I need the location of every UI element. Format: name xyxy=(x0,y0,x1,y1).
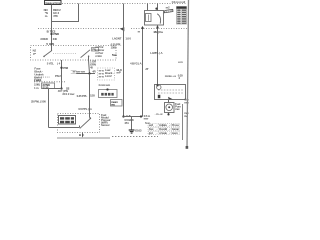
svg-text:Lint 2: Lint 2 xyxy=(105,74,112,78)
fuel text rows left of W1 xyxy=(98,68,115,80)
text right of bottom box xyxy=(101,113,111,127)
mini table top right xyxy=(177,7,187,25)
svg-text:Sensor: Sensor xyxy=(101,123,111,127)
arrow tag xyxy=(164,9,173,13)
svg-text:4 BYG | A: 4 BYG | A xyxy=(130,62,142,66)
svg-text:25 PNL | 500: 25 PNL | 500 xyxy=(31,100,46,104)
wire down at x48 xyxy=(48,89,50,128)
svg-text:mmw + a: mmw + a xyxy=(165,74,176,78)
svg-text:340: 340 xyxy=(53,37,58,41)
svg-text:LAGNT: LAGNT xyxy=(112,37,121,41)
wire down from box xyxy=(61,60,63,89)
svg-text:m2: m2 xyxy=(166,6,170,10)
svg-text:5 m: 5 m xyxy=(112,53,117,57)
switch arc xyxy=(157,14,160,24)
wire labels beside wire xyxy=(44,8,62,18)
grey band xyxy=(57,137,110,139)
svg-text:2C1 2 mw: 2C1 2 mw xyxy=(62,92,75,96)
main middle wire W1 xyxy=(123,4,125,117)
svg-text:LAPPL | A: LAPPL | A xyxy=(150,51,163,55)
dashed connector line right part xyxy=(131,28,187,30)
small label box xyxy=(42,83,55,89)
dashed bus top xyxy=(62,3,187,5)
fuel pump unit box xyxy=(155,85,186,100)
jog dot and horizontal xyxy=(60,87,62,89)
svg-text:451: 451 xyxy=(124,121,129,125)
motor xyxy=(165,103,175,113)
svg-text:mwn: mwn xyxy=(172,131,178,135)
svg-text:n Bm: n Bm xyxy=(95,54,102,58)
wire branch right and up to bus xyxy=(52,21,79,23)
svg-text:0.5 PPL | m: 0.5 PPL | m xyxy=(78,107,92,111)
underhood fuse block dashed box xyxy=(31,46,117,61)
bottom-left dashed component box xyxy=(58,114,100,133)
svg-text:(prt: (prt xyxy=(149,131,153,135)
fuse block label box xyxy=(45,1,62,5)
svg-text:m wm wm: m wm wm xyxy=(73,69,86,73)
page border right xyxy=(187,0,189,149)
small box right of switch2 xyxy=(92,48,99,52)
linkage dotted xyxy=(53,53,77,55)
exit wire + B C label xyxy=(82,133,84,138)
splice dot S110 xyxy=(50,33,52,35)
svg-text:PND: PND xyxy=(53,32,59,36)
svg-text:- m - w: - m - w xyxy=(155,112,164,116)
left text block: Fuse Block Underhood xyxy=(34,66,61,89)
svg-text:1 m: 1 m xyxy=(34,86,39,90)
dashed connector line left xyxy=(34,81,66,83)
svg-text:1S8: 1S8 xyxy=(90,93,95,97)
W1 junction xyxy=(122,115,124,117)
svg-text:AT: AT xyxy=(145,67,149,71)
splice bar xyxy=(76,73,95,75)
inner solid box xyxy=(59,116,76,125)
W2 wire from relay coil pin xyxy=(142,26,144,116)
svg-text:1589: 1589 xyxy=(111,45,117,49)
feed from bus xyxy=(157,4,159,11)
svg-text:m.: m. xyxy=(45,14,48,18)
connector arrow xyxy=(120,27,125,31)
short vertical line xyxy=(182,104,184,140)
text rows in dashed box right part xyxy=(95,45,104,58)
svg-text:4 mm wm: 4 mm wm xyxy=(98,83,110,87)
svg-text:4T8: 4T8 xyxy=(53,14,58,18)
svg-text:5 YEL: 5 YEL xyxy=(47,61,54,65)
svg-text:3 RED: 3 RED xyxy=(40,37,48,41)
svg-text:PN 2: PN 2 xyxy=(55,74,61,78)
wire from fuse block down xyxy=(51,5,53,48)
svg-text:S110: S110 xyxy=(42,85,48,89)
svg-text:ML | Ca: ML | Ca xyxy=(154,30,163,34)
splice dot xyxy=(60,67,62,69)
ground symbol xyxy=(129,129,135,131)
switch 1 xyxy=(51,47,53,51)
svg-text:Gaus a Cms: Gaus a Cms xyxy=(45,1,60,5)
text right of motor xyxy=(175,102,181,111)
svg-text:mP: mP xyxy=(117,71,121,75)
coil box xyxy=(146,14,152,22)
wire entering and switch xyxy=(49,127,80,129)
merge + ground xyxy=(124,116,143,118)
svg-text:P02: P02 xyxy=(63,66,68,70)
dashed line bottom right xyxy=(112,136,158,138)
wire from switch2 down xyxy=(89,60,90,74)
svg-text:1.0 0: 1.0 0 xyxy=(125,37,131,41)
svg-text:u m: u m xyxy=(178,60,183,64)
svg-text:2 C18: 2 C18 xyxy=(34,78,41,82)
switch 2 xyxy=(81,50,90,58)
svg-text:0.35 PPL: 0.35 PPL xyxy=(77,94,88,98)
svg-text:of axle: of axle xyxy=(159,131,167,135)
wire down to bottom box xyxy=(89,74,91,114)
svg-text:C4 nn m x2: C4 nn m x2 xyxy=(172,0,186,4)
relay box xyxy=(145,11,164,26)
top-left pin xyxy=(147,4,149,11)
bottom right text cluster xyxy=(145,0,189,149)
relay output pin wire xyxy=(157,25,159,85)
svg-text:G103: G103 xyxy=(135,129,142,133)
dashed connector line C100 left xyxy=(38,28,121,30)
box B xyxy=(111,100,123,107)
